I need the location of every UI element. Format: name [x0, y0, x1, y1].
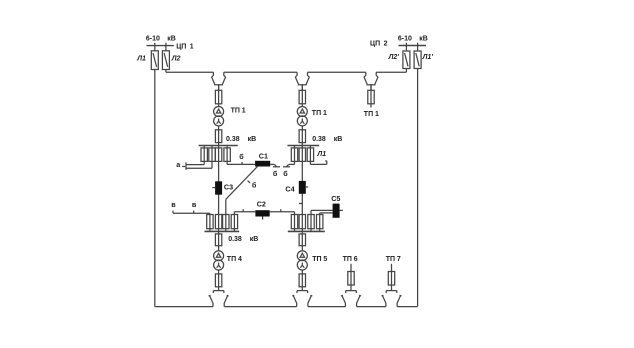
svg-text:в: в — [192, 200, 197, 209]
svg-text:ТП: ТП — [386, 256, 395, 263]
svg-text:С1: С1 — [259, 151, 268, 160]
svg-text:кВ: кВ — [419, 36, 428, 43]
svg-text:С5: С5 — [331, 194, 340, 203]
svg-text:кВ: кВ — [334, 136, 343, 143]
svg-text:кВ: кВ — [250, 236, 259, 243]
svg-text:Л1: Л1 — [316, 151, 326, 158]
svg-text:1: 1 — [375, 111, 379, 118]
svg-text:Л2': Л2' — [388, 54, 400, 61]
svg-text:1: 1 — [242, 107, 246, 114]
svg-text:ТП: ТП — [364, 111, 373, 118]
svg-text:6-10: 6-10 — [146, 36, 160, 43]
svg-text:4: 4 — [238, 256, 242, 263]
svg-text:С4: С4 — [285, 184, 294, 193]
svg-text:0.38: 0.38 — [228, 236, 242, 243]
svg-text:Л1: Л1 — [136, 55, 146, 62]
svg-text:ТП: ТП — [343, 256, 352, 263]
svg-text:Л1': Л1' — [422, 54, 434, 61]
svg-text:С2: С2 — [257, 199, 266, 208]
svg-text:0.38: 0.38 — [312, 136, 326, 143]
svg-text:ЦП: ЦП — [370, 40, 380, 47]
svg-text:ТП: ТП — [312, 110, 321, 117]
svg-text:С3: С3 — [224, 183, 233, 192]
svg-text:1: 1 — [190, 43, 194, 50]
svg-text:б: б — [252, 181, 257, 190]
svg-text:б: б — [273, 169, 278, 178]
svg-text:а: а — [176, 160, 181, 169]
svg-text:кВ: кВ — [248, 136, 257, 143]
svg-text:6-10: 6-10 — [398, 36, 412, 43]
svg-text:б: б — [239, 152, 244, 161]
svg-text:1: 1 — [323, 110, 327, 117]
svg-text:ТП: ТП — [231, 107, 240, 114]
svg-text:ТП: ТП — [227, 256, 236, 263]
svg-text:ТП: ТП — [312, 256, 321, 263]
svg-text:кВ: кВ — [167, 36, 176, 43]
svg-text:5: 5 — [323, 256, 327, 263]
svg-text:ЦП: ЦП — [176, 43, 186, 50]
svg-text:Л2: Л2 — [171, 55, 181, 62]
svg-text:6: 6 — [354, 256, 358, 263]
svg-text:2: 2 — [384, 40, 388, 47]
svg-text:в: в — [171, 200, 176, 209]
svg-text:б: б — [283, 169, 288, 178]
svg-text:0.38: 0.38 — [226, 136, 240, 143]
svg-text:7: 7 — [397, 256, 401, 263]
